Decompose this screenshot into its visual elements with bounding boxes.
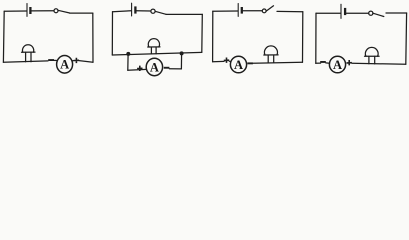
wire: c2 top right segment	[166, 13, 202, 15]
switch S3: pivot circle	[262, 9, 266, 13]
wire: c2 branch left vertical	[127, 54, 129, 70]
wire: c1 top right segment	[70, 12, 93, 14]
junction dot: c2 left node	[126, 52, 130, 56]
polarity label: minus right of ammeter A2	[164, 67, 170, 69]
wire: c3 battery to switch	[243, 10, 262, 12]
wire: c4 right vertical	[405, 13, 408, 64]
battery B3: long (+) plate	[237, 4, 239, 17]
wire: c2 right vertical	[201, 14, 204, 52]
battery B4: short thick (-) plate	[344, 8, 346, 15]
svg-text:A: A	[333, 58, 342, 72]
switch S1: pivot circle	[54, 9, 58, 13]
wire: c4 battery to switch	[346, 12, 368, 14]
bell LB4: brim line	[365, 55, 380, 57]
wire: c2 battery to switch	[137, 10, 151, 12]
ammeter A4: circle	[329, 56, 345, 73]
bell LB1: left leg	[25, 52, 27, 62]
battery B3: short thick (-) plate	[241, 7, 243, 14]
svg-text:A: A	[234, 58, 243, 72]
wire: c2 top left segment	[113, 10, 132, 13]
wire: c1 right vertical	[92, 13, 94, 62]
wire: c4 left vertical	[315, 13, 317, 63]
battery B1: long (+) plate	[26, 4, 28, 17]
polarity label: plus right of ammeter A1	[74, 58, 79, 63]
wire: c3 bottom left to plus	[213, 60, 224, 62]
ammeter A1: circle	[57, 56, 73, 74]
wire: c2 branch left horizontal	[128, 68, 147, 71]
battery B2: short thick (-) plate	[134, 6, 136, 13]
bell LB2: dome	[148, 39, 159, 47]
wire: c1 plus to right corner	[79, 61, 93, 63]
wire: c1 ammeter to plus	[72, 60, 74, 62]
wire: c2 left vertical	[111, 12, 113, 55]
svg-text:A: A	[60, 58, 69, 72]
wire: c2 branch right vertical	[180, 53, 182, 69]
bell LB4: left leg	[368, 56, 370, 63]
wire: c4 minus to ammeter	[326, 62, 330, 64]
wire: c4 bottom left to minus	[316, 62, 321, 64]
bell LB4: dome	[365, 47, 378, 56]
polarity label: minus left of ammeter A1	[48, 59, 54, 61]
polarity label: minus left of ammeter A4	[320, 61, 326, 63]
polarity label: plus right of ammeter A4	[347, 60, 352, 65]
switch S2: lever arm	[155, 11, 166, 14]
wire: c3 left vertical	[212, 11, 214, 61]
wire: c1 minus to ammeter	[54, 59, 57, 61]
switch S4: pivot circle	[369, 11, 373, 15]
wire: c3 top left segment	[213, 10, 238, 12]
bell LB2: left leg	[150, 47, 152, 54]
bell LB1: dome	[22, 45, 33, 52]
wire: c2 main bottom wire	[112, 52, 202, 55]
wire: c4 top left segment	[316, 12, 340, 14]
wire: c1 battery to switch	[32, 10, 54, 12]
switch S1: lever arm	[58, 10, 70, 13]
bell LB3: dome	[264, 46, 277, 55]
wire: c1 left vertical	[2, 11, 5, 62]
polarity label: minus right of ammeter A3	[247, 62, 253, 64]
ammeter A3: circle	[230, 56, 246, 73]
bell LB2: right leg	[155, 47, 157, 54]
wire: c2 branch right horizontal	[169, 68, 181, 70]
bell LB3: brim line	[264, 54, 278, 56]
wire: c3 right vertical	[302, 12, 304, 63]
wire: c3 plus to ammeter	[229, 60, 230, 62]
wire: c3 minus to bell	[253, 61, 303, 64]
wire: c4 top right segment	[386, 12, 407, 14]
bell LB4: right leg	[374, 56, 376, 64]
battery B1: short thick (-) plate	[29, 7, 31, 14]
bell LB2: brim line	[148, 46, 160, 48]
switch S4: lever arm	[373, 13, 384, 16]
switch S2: pivot circle	[151, 9, 155, 13]
bell LB1: right leg	[30, 52, 32, 61]
battery B4: long (+) plate	[340, 4, 342, 18]
ammeter A2: circle	[146, 58, 162, 75]
bell LB1: brim line	[22, 51, 36, 53]
switch S3: lever arm (open, raised)	[266, 6, 274, 12]
bell LB3: left leg	[267, 55, 269, 62]
wire: c3 top right segment	[277, 10, 303, 12]
bell LB3: right leg	[273, 55, 275, 62]
polarity label: plus left of ammeter A3	[224, 58, 229, 63]
wire: c1 top left segment	[4, 10, 26, 12]
wire: c4 plus to bell	[352, 62, 406, 65]
wire: c1 bottom left segment	[3, 61, 48, 62]
svg-text:A: A	[150, 60, 159, 74]
battery B2: long (+) plate	[131, 3, 133, 16]
polarity label: plus left of ammeter A2	[137, 66, 142, 71]
junction dot: c2 right node	[180, 51, 184, 55]
